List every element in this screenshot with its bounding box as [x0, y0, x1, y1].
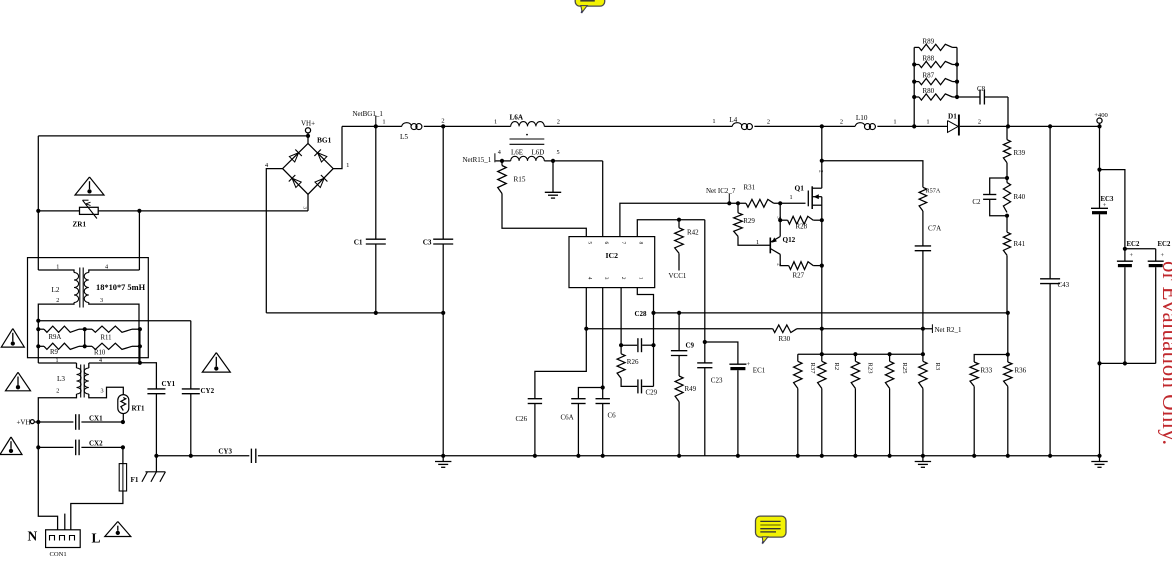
varistor ZR1 [38, 210, 79, 212]
svg-text:Q1: Q1 [795, 184, 805, 193]
net label Net R2_1 [931, 324, 933, 333]
wire bottom rail left part [156, 455, 249, 457]
junction C43 top [1048, 124, 1052, 128]
junction R26 top [619, 343, 623, 347]
wire bridge top stub [307, 133, 309, 143]
wire fuse to CON1 [71, 491, 123, 530]
wire L2 pin1 [38, 270, 74, 273]
wire CON1 middle stub [64, 514, 66, 530]
svg-text:R28: R28 [796, 223, 808, 231]
resistor R10 [85, 345, 92, 347]
svg-text:C6: C6 [608, 412, 617, 420]
svg-text:2: 2 [441, 118, 444, 125]
svg-text:R57A: R57A [926, 188, 941, 195]
svg-text:6: 6 [603, 242, 609, 245]
junction NetR2_1 Q1 column [820, 327, 824, 331]
wire L3 pin2 [38, 394, 76, 422]
capacitor CX2 [75, 440, 77, 456]
svg-text:5: 5 [557, 149, 560, 156]
svg-text:Net IC2_7: Net IC2_7 [706, 187, 736, 195]
svg-text:C26: C26 [516, 415, 528, 423]
resistor R49 [675, 376, 683, 402]
svg-text:R36: R36 [1015, 367, 1027, 375]
junction CY1 branch [138, 361, 142, 365]
svg-text:NetR15_1: NetR15_1 [463, 156, 492, 164]
wire R15 to IC2 pin5 [502, 194, 586, 237]
svg-text:Net R2_1: Net R2_1 [935, 326, 963, 334]
svg-text:1: 1 [56, 358, 59, 364]
junction ZR1 left [36, 209, 40, 213]
junction C7A on NetR2_1 [921, 327, 925, 331]
resistor R39 [1006, 126, 1008, 139]
junction C1 bottom [374, 311, 378, 315]
junction C3 on minus rail [441, 311, 445, 315]
junction NetR2_1 left [584, 327, 588, 331]
capacitor C3 [442, 126, 444, 239]
svg-text:BG1: BG1 [317, 136, 332, 145]
wire bridge bottom to ZR1 line [307, 194, 309, 211]
wire bridge minus rail [266, 312, 443, 314]
svg-text:2: 2 [818, 170, 824, 173]
fuse F1 [119, 464, 126, 491]
svg-text:L2: L2 [52, 286, 60, 294]
wire Q1 source down [821, 197, 823, 355]
wire IC2 pin8 [637, 220, 705, 237]
warning triangle left 1 [1, 329, 24, 348]
resistor R33 [974, 355, 1008, 363]
bridge diode bottom-left [292, 178, 301, 187]
capacitor C43 [1049, 126, 1051, 278]
svg-text:1: 1 [926, 119, 929, 126]
inductor L4 [732, 123, 742, 127]
transistor Q12 (PNP) [769, 238, 771, 254]
svg-text:R87: R87 [923, 72, 935, 80]
svg-text:4: 4 [498, 149, 501, 156]
wire L6D to IC2 pin6 [602, 161, 604, 237]
wire R41 to R36 [1007, 313, 1009, 362]
resistor R31 [746, 199, 774, 207]
capacitor EC3 (electrolytic) [1099, 126, 1101, 208]
svg-text:C7A: C7A [928, 225, 941, 233]
svg-text:8: 8 [638, 242, 644, 245]
capacitor C28 element [621, 344, 637, 346]
svg-text:C9: C9 [686, 342, 695, 350]
svg-text:CON1: CON1 [50, 551, 67, 558]
svg-text:R11: R11 [101, 335, 112, 342]
wire ZR1 right branch down to L2 pin4 [138, 211, 140, 270]
wire CY2 branch [38, 320, 191, 322]
svg-text:R40: R40 [1014, 193, 1026, 201]
wire EC2 top bus [1125, 248, 1156, 250]
junction CX2 left [36, 445, 40, 449]
wire left column upper [37, 136, 39, 270]
wire C7A branch [822, 161, 923, 188]
wire Q12 emitter up [779, 203, 781, 236]
svg-text:CY1: CY1 [162, 380, 176, 388]
svg-text:C28: C28 [634, 310, 647, 318]
svg-text:R15: R15 [514, 176, 526, 184]
junction ZR1 right [137, 209, 141, 213]
junction C23 EC1 node [703, 340, 707, 344]
component box L2 assembly [28, 258, 149, 358]
bridge diode top-left [289, 153, 298, 162]
comment bubble top [575, 0, 605, 13]
wire top rail segment 1 [342, 125, 402, 127]
wire top rail segment 3 [544, 125, 732, 127]
svg-text:R10: R10 [94, 350, 106, 357]
node +400 terminal [1099, 123, 1101, 126]
svg-text:R49: R49 [685, 385, 697, 393]
junction VH+ [306, 134, 310, 138]
wire top rail segment 4 [754, 125, 855, 127]
chassis ground [155, 456, 157, 472]
svg-text:2: 2 [56, 388, 59, 395]
junction R31 right [778, 201, 782, 205]
svg-text:+: + [1161, 252, 1165, 259]
svg-text:L: L [92, 531, 101, 546]
svg-text:18*10*7 5mH: 18*10*7 5mH [96, 283, 146, 292]
junction R33 branch [1006, 352, 1010, 356]
svg-text:or Evaluation Only.: or Evaluation Only. [1158, 261, 1172, 445]
capacitor C7A [922, 211, 924, 246]
junction NetBG1_1 [374, 124, 378, 128]
wire top rail segment 5 [877, 125, 947, 127]
junction C28 right [651, 343, 655, 347]
resistor R42 [678, 220, 680, 228]
capacitor CY2 [190, 321, 192, 389]
svg-text:R26: R26 [627, 358, 639, 366]
resistor R89 [914, 46, 919, 48]
svg-text:R39: R39 [1014, 149, 1026, 157]
svg-text:1: 1 [756, 239, 759, 246]
resistor R11 [85, 328, 92, 330]
svg-text:NetBG1_1: NetBG1_1 [353, 110, 384, 118]
junction EC2 bus [1123, 247, 1127, 251]
wire top rail segment 6 [960, 125, 1100, 127]
net label Net IC2_7 [728, 194, 730, 204]
svg-text:R89: R89 [923, 37, 935, 45]
svg-text:CX2: CX2 [89, 440, 103, 448]
svg-text:3: 3 [603, 277, 609, 280]
junction C6A branch [601, 385, 605, 389]
svg-text:C23: C23 [711, 377, 723, 385]
svg-text:L3: L3 [57, 375, 65, 383]
svg-text:CY3: CY3 [218, 448, 232, 456]
svg-text:R33: R33 [981, 367, 993, 375]
wire L6 secondary row [496, 160, 511, 162]
junction net IC2_7 [727, 201, 731, 205]
junction +VH [36, 420, 40, 424]
junction L6D ground [551, 159, 555, 163]
wire CX2 row [38, 446, 73, 448]
svg-text:R25: R25 [901, 363, 908, 375]
inductor L6A [511, 122, 545, 127]
svg-text:+400: +400 [1094, 112, 1108, 119]
svg-text:L6E: L6E [511, 149, 523, 157]
wire L3 pin3 to RT1 [89, 387, 124, 398]
wire VH+ top [38, 135, 308, 137]
inductor L10 [855, 123, 865, 127]
capacitor CX1 [75, 414, 77, 430]
svg-text:C29: C29 [646, 388, 658, 396]
svg-text:1: 1 [346, 162, 349, 169]
wire L2 pin2 [38, 303, 74, 364]
capacitor C8 [957, 96, 980, 98]
ground under L6D [552, 161, 554, 192]
svg-text:C43: C43 [1058, 281, 1070, 289]
junction R27 right [820, 264, 824, 268]
resistor R36 [1004, 362, 1012, 386]
capacitor C1 [375, 126, 377, 239]
svg-text:2: 2 [767, 119, 770, 126]
transformer core L6 [510, 138, 545, 140]
inductor L6E L6D [511, 156, 545, 161]
svg-text:L6D: L6D [532, 149, 545, 157]
svg-text:R30: R30 [779, 335, 791, 343]
wire CX1 row [34, 421, 73, 423]
warning triangle at CON1 [105, 522, 131, 537]
junction CY2 branch left [36, 319, 40, 323]
svg-text:R9A: R9A [49, 334, 62, 341]
inductor L5 [402, 123, 412, 127]
svg-text:F1: F1 [131, 476, 139, 484]
resistor R9A [38, 328, 44, 330]
net label NetBG1_1 [375, 116, 377, 127]
junction R15 top [500, 159, 504, 163]
wire IC2 pin3 [602, 288, 604, 399]
svg-text:C6A: C6A [561, 414, 574, 422]
svg-text:+: + [747, 361, 751, 368]
junction EC2 branch [1097, 168, 1101, 172]
wire pin8 branch down [704, 220, 706, 342]
svg-text:3: 3 [100, 297, 103, 304]
wire snubber right vertical [956, 47, 958, 97]
wire R29 to Q12 base [738, 236, 770, 245]
junction R28 left [778, 218, 782, 222]
svg-text:3: 3 [100, 388, 103, 395]
svg-text:C8: C8 [977, 85, 986, 93]
junction R41 bottom node [1006, 311, 1010, 315]
wire L3 pin4 row [89, 362, 140, 364]
junction R28 right [820, 218, 824, 222]
svg-text:R27: R27 [793, 272, 805, 280]
wire top rail segment 2 [424, 125, 511, 127]
wire left column to CON1 [38, 447, 57, 529]
connector CON1 [46, 530, 81, 548]
capacitor C9 [671, 350, 687, 352]
bridge diode top-right [318, 153, 327, 162]
svg-text:L4: L4 [729, 116, 737, 124]
wire resistor bank bus [798, 353, 923, 355]
wire C28 rail [654, 312, 1008, 314]
svg-text:R88: R88 [923, 55, 935, 63]
junction resistor rows [36, 327, 40, 331]
junction R40 top [1005, 176, 1009, 180]
svg-text:R80: R80 [923, 87, 935, 95]
wire Q12 collector to R27 [780, 254, 789, 265]
bridge diode bottom-right [315, 178, 324, 187]
resistor R2 [821, 354, 823, 361]
svg-text:VCC1: VCC1 [669, 272, 687, 280]
svg-text:L10: L10 [856, 114, 868, 122]
warning triangle near CY2 [202, 353, 230, 373]
resistor R3 [922, 354, 924, 361]
svg-text:2: 2 [840, 119, 843, 126]
svg-text:2: 2 [557, 119, 560, 126]
svg-text:EC2: EC2 [1158, 241, 1171, 248]
junction snubber left [912, 124, 916, 128]
svg-text:L6A: L6A [510, 114, 524, 122]
capacitor C23 [704, 342, 706, 363]
svg-text:R23: R23 [867, 363, 874, 375]
wire C28/C29 right vertical [653, 313, 655, 387]
svg-text:EC2: EC2 [1127, 241, 1140, 248]
resistor R57A [919, 187, 927, 211]
svg-text:1: 1 [638, 277, 644, 280]
capacitor C26 [528, 398, 542, 400]
wire RT1 bottom [122, 414, 124, 422]
wire resistor middle link [84, 329, 86, 346]
svg-text:R9: R9 [50, 349, 59, 356]
ground at EC3 column [1099, 456, 1101, 462]
wire snubber left vertical [913, 47, 915, 126]
resistor R41 [1006, 216, 1008, 233]
svg-text:5: 5 [587, 242, 593, 245]
junction +400 / EC3 [1097, 124, 1101, 128]
junction C7A branch [820, 159, 824, 163]
resistor R40 [1003, 183, 1010, 213]
ground at C3 column [442, 456, 444, 462]
junction R29 top [736, 201, 740, 205]
wire NetR2_1 rail left part [586, 328, 772, 330]
wire NetR2_1 rail right part [797, 328, 933, 330]
svg-text:R3: R3 [934, 363, 941, 371]
resistor R27 [789, 262, 814, 270]
svg-text:+: + [1130, 252, 1134, 259]
wire L2 pin4 [89, 270, 140, 273]
wire IC2 pin1 [637, 288, 653, 313]
resistor R25 [889, 354, 891, 361]
svg-text:1: 1 [712, 118, 715, 125]
svg-text:C2: C2 [972, 198, 981, 206]
wire IC2 pin4 [585, 288, 587, 329]
svg-text:IC2: IC2 [606, 251, 619, 260]
svg-text:D1: D1 [948, 113, 957, 121]
warning triangle above ZR1 [75, 177, 104, 195]
wire EC2 feed [1100, 170, 1125, 249]
junction Q1 drain rail [820, 124, 824, 128]
wire EC2 bottom bus [1100, 362, 1156, 364]
wire Q1 drain to rail [821, 126, 823, 188]
warning triangle left 2 [6, 372, 31, 391]
ground at R3 column [922, 456, 924, 462]
wire C9 column [678, 313, 680, 351]
svg-text:CX1: CX1 [89, 414, 103, 422]
comment bubble bottom [756, 516, 787, 544]
diode D1 [948, 121, 959, 133]
svg-text:2: 2 [978, 119, 981, 126]
resistor R28 [780, 219, 787, 221]
resistor R15 [501, 161, 503, 166]
resistor R29 [737, 203, 739, 213]
wire bottom rail main [258, 455, 1100, 457]
junction C8 return [1006, 124, 1010, 128]
svg-text:ZR1: ZR1 [73, 221, 87, 229]
op-amp IC2 body [569, 237, 655, 288]
svg-text:RT1: RT1 [132, 405, 145, 413]
resistor R23 [854, 354, 856, 361]
svg-text:R2: R2 [833, 363, 840, 371]
resistor R9 [38, 345, 44, 347]
wire left column to CX2 [37, 422, 39, 447]
svg-text:1: 1 [789, 194, 792, 201]
svg-text:R41: R41 [1014, 240, 1026, 248]
wire bridge pin4 to minus rail [266, 169, 282, 313]
junction R40 bottom [1005, 214, 1009, 218]
thermistor RT1 [118, 395, 129, 414]
resistor R87 [914, 81, 919, 83]
junction CX2 right [121, 445, 125, 449]
junction R42 top [677, 218, 681, 222]
net label VCC1 [678, 253, 680, 270]
svg-text:4: 4 [587, 277, 593, 280]
junction C9 top [677, 311, 681, 315]
resistor R80 [914, 96, 919, 98]
svg-text:EC1: EC1 [753, 367, 766, 375]
net label NetR15_1 [494, 153, 496, 162]
svg-text:2: 2 [56, 297, 59, 304]
wire L2 pin3 [89, 303, 139, 363]
svg-text:VH+: VH+ [301, 119, 315, 127]
resistor R37 [797, 354, 799, 361]
svg-text:N: N [28, 529, 38, 544]
junction C28 rail left [651, 311, 655, 315]
wire bridge pin1 riser [333, 126, 342, 168]
svg-text:R42: R42 [687, 229, 699, 237]
wire IC2 pin7 to gate row [620, 203, 729, 236]
capacitor C29 [621, 378, 637, 386]
wire resistor right link [139, 329, 141, 346]
svg-text:1: 1 [382, 119, 385, 126]
wire C8 to rail [1007, 97, 1009, 126]
resistor R30 [773, 325, 797, 333]
svg-text:CY2: CY2 [201, 387, 215, 395]
svg-text:R31: R31 [744, 183, 756, 191]
junction RT1 bottom [121, 420, 125, 424]
capacitor CY1 [140, 363, 157, 389]
svg-text:1: 1 [494, 119, 497, 126]
capacitor EC1 (electrolytic) [705, 342, 738, 364]
capacitor C6A [578, 388, 602, 399]
svg-text:C1: C1 [354, 239, 363, 247]
svg-text:Q12: Q12 [783, 236, 796, 244]
svg-text:R37: R37 [809, 363, 816, 375]
bridge rectifier BG1 [283, 143, 334, 194]
svg-text:1: 1 [893, 119, 896, 126]
capacitor C2 [990, 178, 1007, 195]
node VH+ terminal [305, 128, 310, 133]
capacitor C6 [596, 398, 610, 400]
svg-text:2: 2 [620, 277, 626, 280]
wire C26 branch [535, 329, 586, 399]
warning triangle left 3 [0, 437, 22, 455]
svg-text:C3: C3 [423, 239, 432, 247]
svg-text:+VH: +VH [16, 418, 30, 426]
svg-text:L5: L5 [400, 133, 408, 141]
resistor R88 [914, 64, 919, 66]
svg-text:R29: R29 [743, 217, 755, 225]
resistor R26 [617, 354, 625, 379]
